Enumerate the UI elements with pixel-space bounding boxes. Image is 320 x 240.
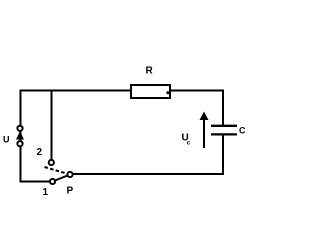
svg-text:1: 1 [43,187,49,198]
wire to switch contact 2 [51,90,53,163]
wire top (node between source/switch top and R to capacitor) [20,90,225,92]
capacitor C plates [211,126,237,135]
voltage arrow Uc [200,112,209,149]
resistor R [131,85,170,98]
source U arrow (ideal source symbol: two terminals with arrow) [16,126,24,147]
wire left vertical (through source U) [20,90,22,183]
svg-text:R: R [146,66,154,77]
svg-text:2: 2 [37,147,43,158]
wire right upper (top wire down to capacitor plate) [222,90,224,126]
switch arm solid (position 1 to pivot P) [53,175,71,182]
switch pivot P [67,172,72,177]
svg-text:C: C [239,126,246,136]
switch contact 2 [49,160,54,165]
svg-text:P: P [67,186,74,197]
switch arm dashed (position 2) [45,167,71,175]
switch contact 1 [50,179,55,184]
svg-text:U: U [3,134,10,144]
wire bottom-right (switch pivot P to capacitor) [70,173,224,175]
wire right lower (capacitor bottom plate down to bottom wire) [222,135,224,176]
wire bottom-left (to switch contact 1) [20,181,53,183]
